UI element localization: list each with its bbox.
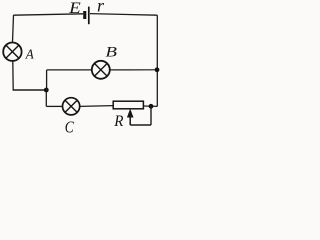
wire C left	[46, 105, 62, 107]
svg-text:R: R	[113, 113, 123, 130]
wire left vertical lower	[12, 61, 14, 90]
lamp B	[92, 61, 110, 79]
wire B right	[110, 69, 157, 71]
svg-text:B: B	[105, 45, 117, 61]
wire left vertical upper	[13, 15, 14, 42]
svg-text:A: A	[25, 47, 34, 62]
rheostat R body	[113, 101, 143, 109]
wire wiper bottom	[130, 124, 151, 126]
wire top-right horizontal	[90, 14, 157, 16]
wire junction down to C branch	[45, 90, 47, 106]
wire right vertical	[156, 15, 158, 106]
svg-text:C: C	[65, 118, 75, 137]
wire junction up to B branch	[46, 70, 48, 90]
node dot wiper tap	[149, 104, 154, 109]
svg-text:E: E	[68, 0, 81, 17]
node junction dot	[44, 88, 49, 93]
wire rheostat right to corner	[144, 105, 158, 107]
wire B left	[47, 69, 92, 71]
wire C right to rheostat	[80, 105, 113, 108]
lamp A	[3, 43, 21, 61]
wire bottom of A to junction	[13, 89, 47, 91]
rheostat wiper arrow	[127, 109, 134, 125]
node dot B-right on right wire	[155, 67, 160, 72]
battery cell E r	[83, 7, 89, 25]
lamp C	[63, 98, 80, 115]
wire wiper up to tap	[150, 106, 152, 125]
wire top-left horizontal	[13, 14, 83, 15]
